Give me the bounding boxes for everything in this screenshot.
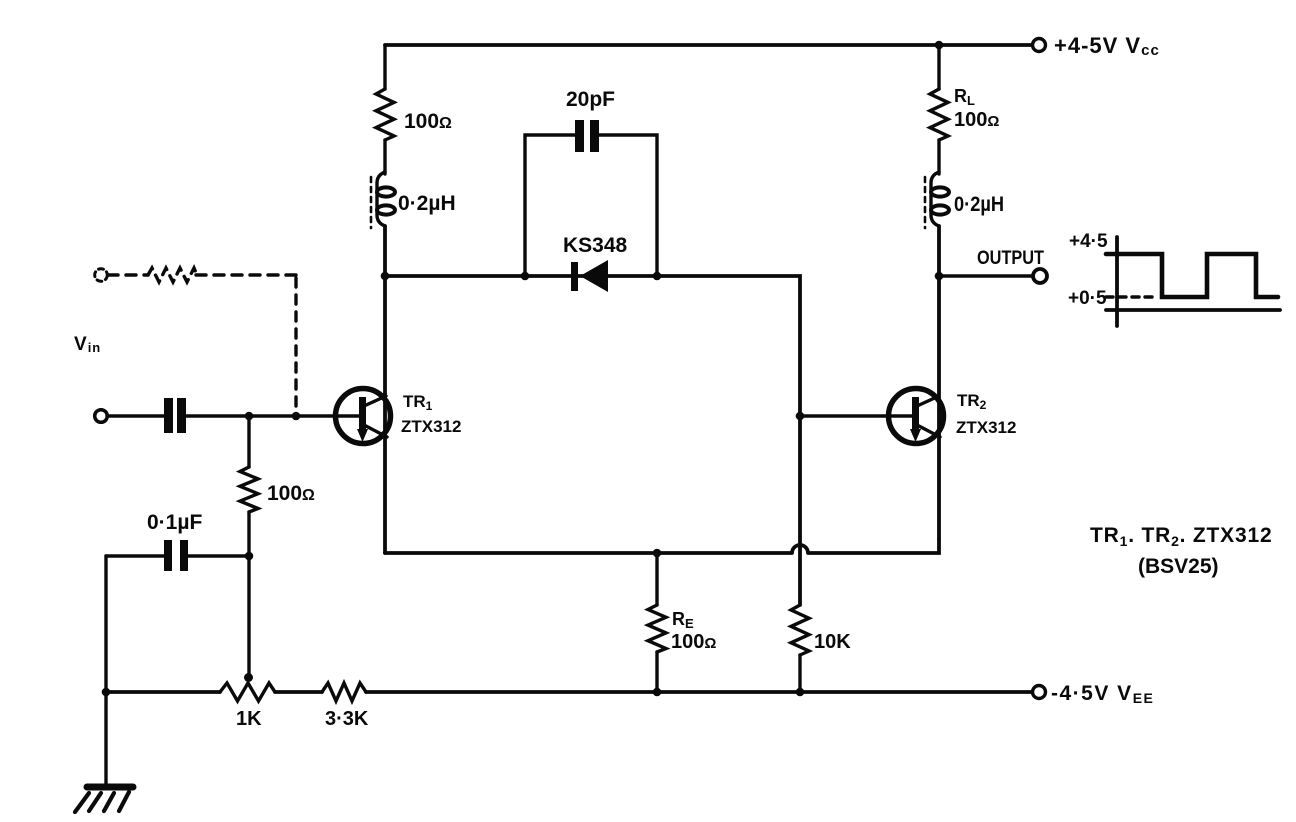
svg-text:10K: 10K: [814, 631, 851, 653]
wire TR1 collector chain upper: [383, 45, 386, 89]
svg-text:RL: RL: [954, 86, 975, 108]
node cap-resistor junction: [245, 552, 254, 561]
svg-text:RE: RE: [672, 609, 694, 631]
waveform axes: [1106, 237, 1280, 326]
svg-text:0·2µH: 0·2µH: [398, 192, 456, 215]
svg-text:+0·5: +0·5: [1068, 288, 1107, 309]
svg-text:100Ω: 100Ω: [954, 109, 999, 131]
diode KS348: [571, 260, 608, 292]
svg-text:20pF: 20pF: [566, 88, 615, 111]
terminal VEE: [1033, 686, 1046, 699]
capacitor 0.1µF: [106, 540, 249, 571]
terminal Vcc: [1033, 39, 1046, 52]
wire between resistor and inductor: [383, 140, 386, 174]
resistor 100Ω base bias: [240, 416, 258, 556]
terminal Vin input: [95, 410, 108, 423]
svg-text:KS348: KS348: [563, 234, 628, 257]
waveform dashed low level: [1106, 295, 1158, 298]
transistor TR2: [889, 389, 944, 444]
svg-text:(BSV25): (BSV25): [1138, 555, 1219, 578]
svg-text:ZTX312: ZTX312: [401, 417, 461, 436]
svg-text:OUTPUT: OUTPUT: [977, 248, 1044, 269]
wire TR2 base: [800, 414, 913, 417]
node dashed branch junction: [292, 412, 301, 421]
capacitor input coupling: [164, 398, 186, 433]
wire dashed vertical to base: [294, 278, 297, 412]
svg-text:+4·5: +4·5: [1069, 231, 1108, 252]
node RE bottom: [653, 688, 662, 697]
svg-text:100Ω: 100Ω: [671, 631, 716, 653]
wire input to coupling cap: [107, 414, 164, 417]
node RE top: [653, 549, 662, 558]
wire junction down to pot wiper: [247, 556, 250, 678]
svg-text:TR1: TR1: [403, 392, 433, 413]
svg-text:100Ω: 100Ω: [267, 482, 315, 505]
wire dashed right segment: [196, 273, 296, 276]
node 10K bottom: [796, 688, 805, 697]
wire TR2 collector chain lower: [937, 226, 941, 539]
svg-text:0·1µF: 0·1µF: [147, 511, 202, 534]
node TR2 base junction: [796, 412, 805, 421]
resistor 3.3K: [322, 683, 366, 701]
svg-text:0·2µH: 0·2µH: [954, 193, 1004, 216]
inductor L2 0.2µH: [925, 172, 949, 228]
wire bottom rail mid1: [275, 690, 322, 694]
svg-text:+4-5V Vcc: +4-5V Vcc: [1054, 33, 1160, 59]
capacitor 20pF plates: [575, 120, 599, 152]
wire left vertical to ground: [104, 556, 107, 788]
capacitor 20pF branch wires: [525, 135, 657, 276]
transistor TR1: [336, 389, 391, 444]
svg-text:Vin: Vin: [74, 334, 101, 355]
svg-text:1K: 1K: [236, 708, 262, 730]
inductor L1 0.2µH: [371, 172, 395, 228]
terminal OUTPUT: [1033, 269, 1047, 283]
resistor 10K: [791, 605, 809, 692]
resistor RE 100Ω: [648, 553, 666, 692]
svg-text:100Ω: 100Ω: [404, 110, 452, 133]
svg-text:TR2: TR2: [957, 391, 987, 412]
wire output: [939, 274, 1033, 277]
node output junction: [935, 272, 944, 281]
resistor 1K (potentiometer): [220, 683, 275, 701]
wire between RL and inductor: [937, 140, 940, 174]
ground: [75, 787, 133, 812]
node top-right junction: [935, 41, 944, 50]
wire dashed left segment: [108, 273, 148, 276]
node cap box right: [653, 272, 662, 281]
wire top rail: [385, 43, 1033, 47]
svg-text:3·3K: 3·3K: [325, 708, 369, 730]
node TR1 collector: [381, 272, 390, 281]
wire cross-coupling line: [385, 276, 800, 605]
node base bias junction: [245, 412, 254, 421]
node cap box left: [521, 272, 530, 281]
svg-text:-4·5V VEE: -4·5V VEE: [1051, 682, 1154, 706]
terminal dashed input: [95, 269, 108, 282]
wire cap to TR1 base: [186, 414, 360, 417]
wire TR1 collector chain lower: [383, 226, 387, 553]
node bottom-left junction: [102, 688, 111, 697]
wire bottom rail right: [366, 690, 1033, 694]
svg-text:ZTX312: ZTX312: [956, 418, 1016, 437]
svg-text:TR1. TR2. ZTX312: TR1. TR2. ZTX312: [1090, 524, 1272, 549]
waveform square wave: [1106, 254, 1278, 297]
resistor 100Ω (TR1 collector): [376, 89, 394, 140]
resistor dashed: [148, 268, 197, 282]
resistor RL 100Ω: [930, 89, 948, 140]
node pot wiper: [244, 673, 253, 682]
wire bottom rail left: [106, 690, 220, 694]
wire TR2 collector chain upper: [937, 45, 940, 89]
wire emitter rail: [385, 539, 939, 553]
